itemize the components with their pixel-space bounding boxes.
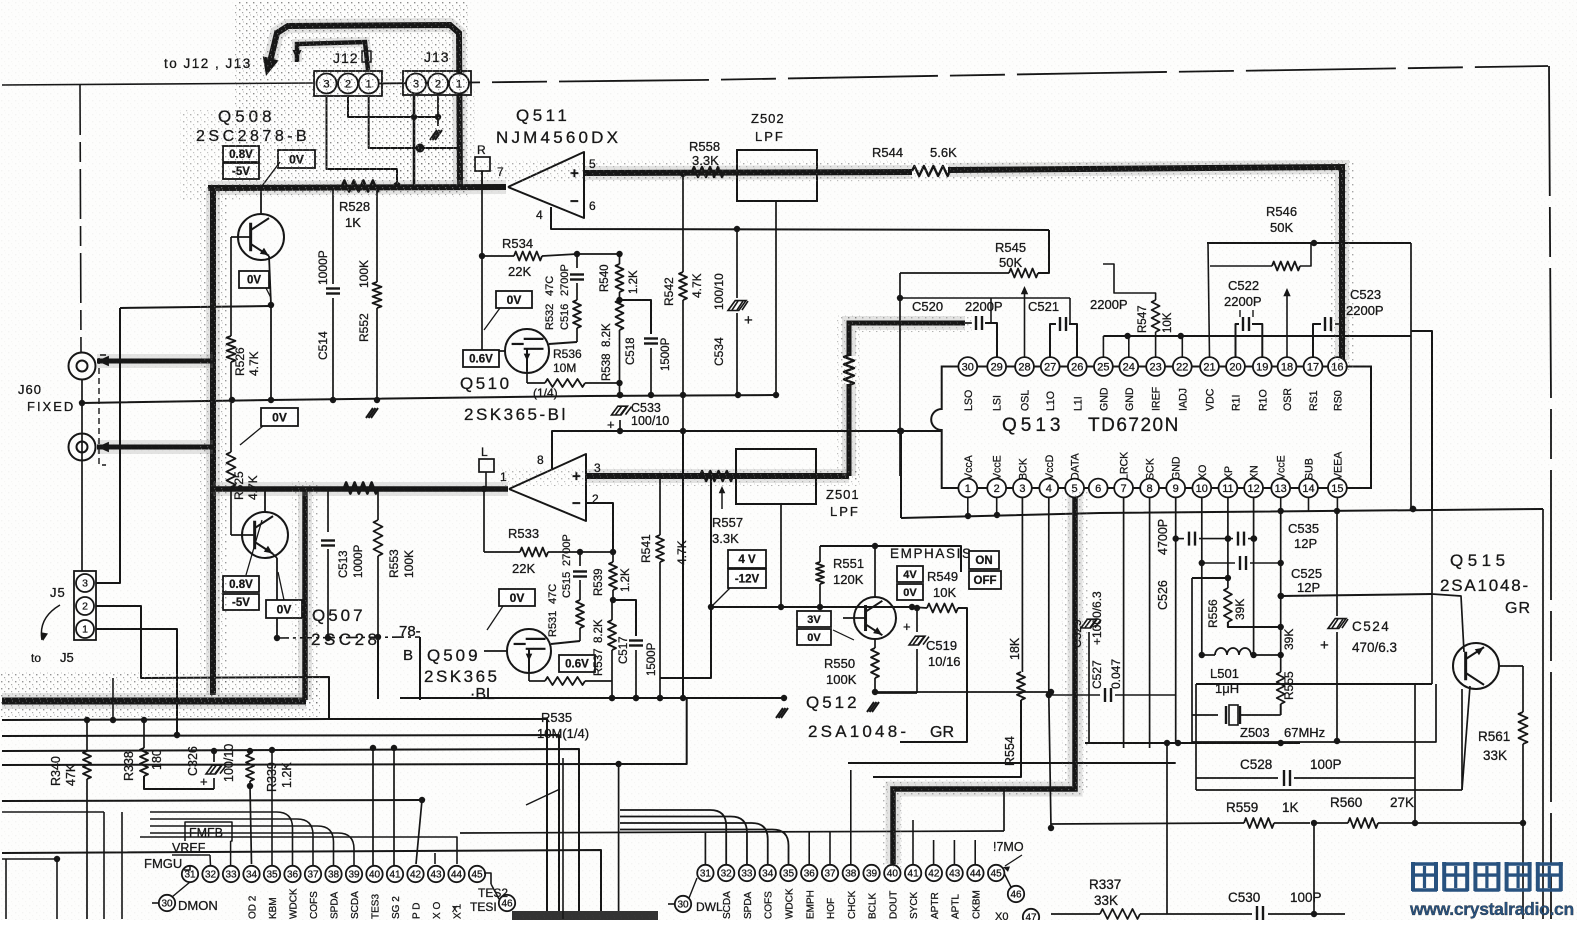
label R552 100K bbox=[357, 260, 371, 342]
speckle data trace bbox=[882, 490, 1088, 870]
capacitor C533 electrolytic bbox=[607, 392, 632, 432]
transistor Q512 bbox=[854, 597, 896, 639]
thick trace top hook outer with arrowhead bbox=[263, 25, 460, 186]
label to J5 bbox=[31, 650, 74, 665]
wire pin13 long vertical bbox=[1278, 511, 1284, 658]
label R537 8.2K bbox=[593, 619, 605, 676]
label R557 3.3K bbox=[712, 486, 743, 546]
resistor R558 zigzag in thick line bbox=[692, 167, 724, 177]
label R540 1.2K bbox=[599, 265, 640, 295]
resistor R531 vertical bbox=[576, 600, 584, 641]
wire Q509 gate bbox=[484, 650, 507, 652]
wire x=1314 down bbox=[1311, 823, 1317, 917]
left IC pin circles 31..45 bbox=[182, 866, 485, 882]
resistor R557 zigzag in thick line bbox=[700, 471, 733, 481]
bus y=719 bbox=[2, 717, 547, 919]
wire pin44c stub bbox=[974, 840, 976, 865]
wire Q510 gate bbox=[482, 350, 505, 352]
label FMGU bbox=[144, 856, 182, 871]
bus y=840 center bbox=[0, 0, 1, 1]
label Q507 bbox=[312, 606, 366, 625]
label C530 100P bbox=[1228, 890, 1322, 905]
label B 78- bbox=[399, 623, 421, 664]
pin25 stub bbox=[1102, 336, 1104, 357]
resistor R553 vertical bbox=[374, 489, 383, 640]
rail FIXED y=403 to 395 bbox=[82, 395, 776, 403]
label Q513 TD6720N bbox=[1002, 415, 1180, 436]
connector J5 bbox=[74, 571, 96, 640]
wire Q507 base from R525 bbox=[231, 534, 254, 536]
resistor R536 10M bbox=[527, 373, 620, 387]
thick left trunk vertical x=213 bbox=[206, 188, 220, 695]
connector J60 upper jack bbox=[69, 353, 96, 380]
pin1 stub bbox=[967, 497, 969, 517]
label C519 10/16 bbox=[926, 638, 961, 669]
bus wire y=763 bbox=[848, 762, 1176, 764]
resistor R338 vertical bbox=[140, 720, 214, 789]
label C514 1000P bbox=[316, 250, 330, 360]
wire pin9 vertical bbox=[1173, 497, 1182, 746]
speckle J13 area bbox=[400, 90, 475, 190]
bottom-left corner horizontals bbox=[2, 812, 104, 862]
thick trace inner jumper to J12 pin1 bbox=[293, 42, 369, 70]
resistor R561 bbox=[1519, 666, 1528, 919]
label NJM4560DX bbox=[496, 128, 621, 147]
page border top edge (dashed) bbox=[330, 66, 1548, 84]
pin24 stub bbox=[1128, 336, 1130, 357]
label TES2 TESI bbox=[452, 886, 508, 915]
capacitor C520 bbox=[965, 298, 997, 357]
label VREF box bbox=[172, 841, 210, 855]
wire pin12 vertical bbox=[1250, 497, 1256, 658]
wire V+ line y=431 bbox=[552, 428, 941, 470]
capacitor C524 electrolytic bbox=[1320, 511, 1348, 744]
voltage box 0.8V (Q508) bbox=[223, 146, 259, 162]
capacitor C534 electrolytic bbox=[728, 229, 753, 395]
thick rail y=187 to op-amp1 (carries R528) bbox=[208, 187, 506, 188]
IC top pin circles 30..16 bbox=[958, 357, 1346, 376]
wire far right down bbox=[1542, 509, 1544, 919]
bus y=677 bbox=[143, 677, 329, 719]
resistor R339 vertical bbox=[246, 751, 254, 864]
curved bus into center pins 32-35 bbox=[620, 810, 789, 865]
capacitor C518 1500P bbox=[620, 300, 659, 395]
LPF Z502 box bbox=[737, 150, 817, 201]
wire right nest x=1432 lower bbox=[1431, 509, 1433, 594]
label C517 bbox=[618, 637, 658, 677]
voltage box 4V -12V bbox=[712, 550, 766, 606]
resistor R340 vertical bbox=[83, 720, 91, 919]
resistor R550 vertical bbox=[871, 639, 879, 695]
label C522 2200P bbox=[1224, 278, 1262, 309]
wire x=900 vertical bbox=[897, 273, 903, 476]
pin2 stub bbox=[996, 497, 998, 516]
label R526 4.7K bbox=[233, 347, 261, 376]
label R534 22K bbox=[502, 236, 533, 279]
label Z501 LPF bbox=[826, 487, 860, 519]
voltage box 0.8V (Q507) bbox=[223, 576, 259, 592]
label R536 10M bbox=[553, 347, 582, 375]
label Z503 67MHz bbox=[1240, 725, 1325, 740]
wire J5 pin3 up to 0V rail bbox=[96, 308, 120, 583]
IC Q513 TD6720N body bbox=[931, 367, 1371, 489]
wire y=298 cap return line bbox=[900, 297, 1070, 299]
wire pin4 vertical bbox=[1046, 497, 1055, 831]
wire L box stub bbox=[485, 472, 487, 487]
voltage box 0V (Q509) bbox=[487, 589, 535, 630]
label DWL bbox=[668, 900, 723, 914]
capacitor C527 bbox=[1049, 688, 1176, 702]
thick vertical x=305 from R527 line bbox=[298, 489, 312, 700]
pin13 stub bbox=[1280, 497, 1282, 511]
resistor R528 zigzag in thick rail bbox=[342, 181, 380, 192]
voltage box -5V (Q507) bbox=[223, 520, 262, 610]
wire R531 to Q509 drain bbox=[551, 641, 580, 644]
label R561 33K bbox=[1478, 729, 1510, 763]
wire emitter line y=692 bbox=[875, 689, 1054, 695]
wire y=743 line bbox=[1085, 740, 1300, 746]
wire x=1196 down bbox=[1195, 684, 1197, 790]
label Q512 name bbox=[806, 693, 860, 712]
label R551 120K bbox=[833, 556, 864, 587]
label C521 2200P bbox=[1028, 297, 1128, 314]
thick op-amp1 output line with R558 R544 to TD6720N pin16 bbox=[584, 167, 1342, 360]
capacitor C522 bbox=[1236, 310, 1263, 357]
wire x=1432 to 684 bbox=[0, 0, 1, 1]
label R546 50K bbox=[1266, 204, 1297, 235]
ground under rail at R552 bbox=[366, 408, 378, 418]
connector J13 bbox=[403, 71, 471, 95]
label C524 470/6.3 bbox=[1352, 619, 1397, 655]
crystal Z503 bbox=[1192, 705, 1281, 725]
diag wires bottom center bbox=[526, 789, 560, 805]
small connector mark on J12 pin1 wire bbox=[362, 51, 371, 62]
label EMPHASIS bbox=[890, 546, 973, 561]
capacitor C516 bbox=[570, 254, 584, 300]
voltage box 0V (Q510) bbox=[484, 291, 532, 330]
label R337 33K bbox=[1089, 877, 1121, 908]
wire R533 to R539 bbox=[580, 549, 616, 555]
wire Q508 emitter down bbox=[268, 256, 274, 403]
wire J13 pin2 stub bbox=[437, 96, 439, 126]
LPF Z501 box bbox=[736, 449, 816, 504]
wire x=1167 down to C530 bbox=[1166, 743, 1168, 914]
voltage box 0V (Q507 emitter) bbox=[266, 572, 302, 618]
wire pin8 down bbox=[1149, 497, 1151, 748]
rail y=243 VDC line bbox=[1207, 240, 1411, 246]
wire y=595 line bbox=[1278, 593, 1432, 599]
capacitor C514 bbox=[326, 188, 340, 403]
wire pin45 tail bbox=[484, 873, 491, 884]
label J5 bbox=[50, 585, 66, 600]
voltage box 4V (R549) bbox=[897, 566, 923, 582]
label R554 18K bbox=[1003, 637, 1022, 766]
resistor R538 vertical bbox=[616, 300, 624, 386]
resistor R554 from pin3 bbox=[873, 497, 1025, 777]
label R556 39K bbox=[1206, 599, 1247, 628]
transistor Q515 bbox=[1453, 643, 1499, 689]
vertical x=113 bbox=[112, 678, 114, 720]
stub R542 to line431 bbox=[682, 395, 684, 431]
thick bottom-left band bbox=[2, 693, 306, 709]
wire R559 R560 line y=823 bbox=[1051, 823, 1244, 824]
capacitor C529 electrolytic bbox=[1081, 619, 1101, 743]
wire FMGU to pin31 bbox=[184, 865, 190, 870]
center IC pin circles 31..45 bbox=[697, 865, 1004, 881]
resistor R556 vertical bbox=[1224, 588, 1284, 630]
wire pin37c stub bbox=[829, 832, 831, 865]
wire pin43c stub bbox=[953, 840, 955, 865]
resistor R555 vertical bbox=[1277, 655, 1285, 715]
thick R527 line y=489 to op-amp2 bbox=[213, 482, 508, 496]
capacitor C326 electrolytic bbox=[200, 751, 226, 789]
watermark url bbox=[1409, 899, 1574, 919]
wire pin36c stub bbox=[808, 832, 810, 865]
resistor R544 zigzag in thick line bbox=[912, 166, 950, 176]
transistor Q507 bbox=[242, 512, 288, 558]
wire J13 pin3 down to thick rail bbox=[413, 96, 416, 186]
label R541 4.7K bbox=[639, 534, 689, 565]
watermark CJK text crystalradio bbox=[1411, 862, 1563, 891]
label 2SC28 78- B bbox=[311, 630, 380, 649]
label C528 100P bbox=[1240, 757, 1342, 772]
label R545 50K bbox=[995, 240, 1026, 270]
bus wire y=748 segment bbox=[0, 0, 1, 1]
vertical x=571 bottom bbox=[0, 0, 1, 1]
capacitor C528 100P bbox=[1196, 684, 1415, 786]
wire J60 vertical to J5 bbox=[79, 380, 85, 571]
op-amp2 pin labels bbox=[500, 453, 601, 506]
resistor R541 vertical bbox=[656, 473, 664, 701]
box bottom wire y=741 bbox=[0, 0, 1, 1]
resistor R542 vertical bbox=[679, 171, 687, 395]
voltage box 0V (R525 top) bbox=[240, 408, 298, 445]
wire pin44 stub bbox=[140, 837, 457, 864]
wire Q507 emitter down bbox=[273, 554, 280, 641]
ground under J13 pin2 bbox=[430, 130, 442, 140]
capacitor C513 bbox=[321, 489, 335, 641]
resistor R549 bbox=[900, 604, 967, 743]
wire x=901 from line431 bbox=[898, 428, 904, 518]
capacitor C517 1500P bbox=[613, 600, 643, 701]
page border top-left edge bbox=[2, 83, 313, 85]
label C526 4700P bbox=[1156, 519, 1170, 610]
label 2SA1048- GR bbox=[1440, 576, 1531, 617]
resistor R559 bbox=[1244, 818, 1317, 828]
resistor R540 vertical bbox=[616, 254, 624, 303]
label C513 1000P bbox=[338, 544, 365, 578]
op-amp2 feedback wire pin2 bbox=[586, 503, 613, 552]
wire x=420 to band bbox=[419, 637, 421, 700]
label R539 1.2K bbox=[593, 568, 632, 596]
resistor R537 vertical bbox=[608, 600, 616, 701]
label C534 100/10 bbox=[712, 273, 726, 366]
wire y=607 line bbox=[660, 476, 915, 678]
wire 0V rail to J5 line bbox=[120, 306, 271, 308]
wire Z502 bottom to rail bbox=[775, 201, 777, 395]
IC top pin name labels bbox=[963, 386, 1345, 411]
label C535 12P bbox=[1288, 521, 1319, 551]
thick J60 upper feed arrow bbox=[97, 356, 213, 367]
label C523 2200P bbox=[1346, 287, 1384, 318]
op-amp U1b Q511 triangle bbox=[509, 454, 586, 521]
capacitor C521 bbox=[1050, 298, 1077, 357]
thick branch R543 up to C520 bbox=[849, 323, 965, 476]
ground at rail 698 bbox=[776, 708, 788, 718]
resistor R526 vertical bbox=[227, 237, 236, 403]
capacitor C530 in line bbox=[1167, 906, 1345, 922]
resistor R547 from pin23 bbox=[1103, 264, 1160, 357]
resistor R534 bbox=[482, 251, 580, 261]
label R555 39K bbox=[1282, 629, 1296, 700]
resistor R539 vertical bbox=[609, 552, 617, 603]
resistor R551 vertical bbox=[816, 546, 824, 607]
wire Z501 bottom bbox=[778, 504, 784, 610]
op-amp1 pin labels bbox=[497, 157, 596, 222]
speckle left trunk bbox=[200, 185, 318, 705]
wire pin31c stub bbox=[704, 833, 706, 865]
wire Q512 base bbox=[843, 617, 866, 619]
wire pin42 stub bbox=[0, 0, 1, 1]
FET Q509 bbox=[507, 629, 551, 673]
thick DATA trace from pin5 down-left to pin 40 bbox=[893, 495, 1075, 864]
dark band bottom center bbox=[512, 911, 658, 920]
label J12 bbox=[333, 50, 359, 66]
stub C533 to line431 bbox=[619, 420, 621, 431]
label Q509 bbox=[427, 646, 481, 665]
bus y=800 bbox=[2, 797, 425, 864]
voltage box 0.6V (Q509) bbox=[559, 655, 595, 672]
wire pin10 vertical bbox=[1199, 497, 1205, 658]
cap row y=538 C535 bbox=[1176, 532, 1258, 546]
dots on FIXED rail bbox=[617, 392, 779, 398]
label R525 4.7K bbox=[232, 471, 260, 500]
wire right nest jog bbox=[1411, 331, 1432, 509]
wire R551 top line y=546 bbox=[820, 546, 961, 572]
label C527 0.047 bbox=[1090, 659, 1123, 689]
label C516 2700P etc bbox=[544, 264, 571, 330]
label Q508 bbox=[218, 107, 276, 126]
rail y=698 ground rail bbox=[400, 695, 787, 701]
wire R534 to R540 bbox=[577, 251, 623, 257]
wire pin40 stub bbox=[372, 748, 374, 865]
bus y=750 bbox=[2, 745, 579, 919]
label Q515 bbox=[1450, 551, 1510, 570]
emphasis box ON bbox=[969, 551, 999, 569]
label FIXED bbox=[27, 399, 75, 414]
left IC pin labels bbox=[248, 888, 464, 919]
bus y=808 bbox=[0, 0, 1, 1]
wire J5 pin1 bus bbox=[96, 629, 180, 738]
label DMON bbox=[152, 898, 218, 913]
resistor R543 zigzag in thick branch bbox=[844, 355, 854, 385]
wire Q512 collector bbox=[872, 543, 878, 597]
label R544 5.6K bbox=[872, 145, 957, 160]
IC bottom pin circles 1..15 bbox=[958, 479, 1346, 498]
transistor Q508 bbox=[238, 214, 284, 260]
op-amp U1a Q511 triangle bbox=[508, 152, 584, 218]
label R558 3.3K bbox=[689, 139, 720, 168]
svg-text:www.crystalradio.cn: www.crystalradio.cn bbox=[1409, 899, 1574, 919]
bottom-left corner verticals bbox=[6, 812, 122, 919]
pin14 stub bbox=[1308, 497, 1310, 511]
circle 46 left IC bbox=[491, 884, 515, 911]
IC bottom pin name labels bbox=[963, 451, 1345, 480]
J60 bracket bbox=[99, 355, 106, 465]
wire pin41 stub bbox=[393, 748, 395, 865]
wire J12 pin1 down-right to thick trunk bbox=[369, 96, 458, 153]
label R549 10K bbox=[927, 569, 958, 600]
voltage box 3V 0V (Q512) bbox=[797, 611, 854, 645]
label 2SA1048-GR bbox=[808, 722, 954, 741]
wire R536 right to rail bbox=[619, 383, 621, 395]
resistor R546 bbox=[1210, 243, 1311, 271]
wire pin35 stub bbox=[271, 750, 273, 865]
voltage box 0V (R549) bbox=[897, 584, 923, 600]
wire pin21 up bbox=[1208, 243, 1210, 357]
wire R533 node vertical bbox=[481, 486, 487, 552]
voltage box 0V (Q508 base) bbox=[262, 150, 315, 186]
label J60 bbox=[18, 382, 42, 397]
wire x=1415 up bbox=[1414, 778, 1416, 823]
label L501 1uH bbox=[1210, 666, 1239, 696]
voltage box -5V (Q508) bbox=[223, 163, 259, 179]
rail y=511 below IC bbox=[901, 506, 1543, 519]
test point R box bbox=[475, 143, 490, 186]
dash-dot wire y=638 bbox=[277, 637, 420, 638]
thick J60 lower feed arrow bbox=[97, 442, 213, 453]
wire Q515 bottom lead bbox=[1462, 686, 1470, 790]
label R547 10K bbox=[1137, 306, 1174, 334]
label C529 1000/6.3 bbox=[1070, 591, 1104, 648]
capacitor C519 electrolytic bbox=[873, 605, 929, 693]
wire C528 loop y=684 bbox=[1196, 594, 1432, 684]
circle 30 center IC bbox=[675, 878, 697, 912]
wire pin7 down bbox=[1123, 497, 1125, 748]
wire Q515 top lead bbox=[1432, 594, 1464, 652]
ground left of C519 bbox=[0, 0, 1, 1]
test point L box bbox=[479, 445, 494, 472]
resistor R532 vertical bbox=[573, 300, 581, 342]
wire Q507 collector to thick line bbox=[264, 489, 266, 512]
long bus y=853 bbox=[2, 850, 601, 919]
speckle thick top line bbox=[460, 160, 1354, 370]
label Q511 bbox=[516, 106, 570, 125]
vertical x=563 bottom bbox=[562, 758, 564, 919]
cap row y=563 C525 bbox=[1199, 556, 1284, 570]
speckle top-left hook area bbox=[180, 2, 470, 200]
label R339 1.2K bbox=[265, 762, 294, 792]
voltage box 0V (Q508 emitter) bbox=[239, 271, 271, 298]
bus wire y=748 right bbox=[0, 0, 1, 1]
label J13 bbox=[424, 49, 450, 65]
label R553 100K bbox=[387, 549, 416, 578]
pin22 stub bbox=[1181, 336, 1183, 357]
label R338 180 bbox=[122, 749, 164, 781]
resistor R527 zigzag in thick line bbox=[344, 483, 378, 494]
wire pin11 vertical bbox=[1225, 497, 1231, 588]
circle 47 center IC bbox=[995, 909, 1039, 925]
resistor R525 vertical bbox=[227, 403, 236, 535]
label to J12 J13 bbox=[164, 56, 252, 71]
wire Q508 collector to thick rail bbox=[260, 188, 262, 214]
resistor R533 bbox=[484, 548, 583, 557]
inductor L501 bbox=[1202, 648, 1281, 655]
circle 46 center IC bbox=[1004, 873, 1024, 902]
label FMFB box bbox=[185, 822, 232, 841]
wire pin43 stub bbox=[434, 853, 436, 864]
page border left edge bbox=[80, 85, 81, 352]
